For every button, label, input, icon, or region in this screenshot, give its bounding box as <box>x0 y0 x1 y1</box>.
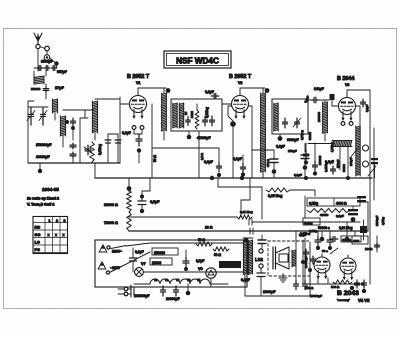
node dot <box>65 120 75 130</box>
capacitor 240pF <box>303 87 329 103</box>
label 0,5μF b <box>196 259 204 263</box>
labels right of dashed box <box>299 229 317 237</box>
resistor 50Ω a <box>196 238 212 246</box>
svg-text:0,01 Meg: 0,01 Meg <box>240 210 253 214</box>
svg-text:70000 Ω: 70000 Ω <box>104 221 118 225</box>
IF1 internal capacitor <box>184 112 190 126</box>
svg-text:30000: 30000 <box>191 110 194 118</box>
V3 cathode leads <box>341 106 360 126</box>
caps under detector <box>304 143 318 176</box>
mains triangle 220V <box>99 245 126 254</box>
svg-text:50 Ω: 50 Ω <box>214 253 221 257</box>
svg-text:V1: V1 <box>136 81 140 85</box>
svg-text:0,1μF: 0,1μF <box>204 160 213 164</box>
tube V1 <box>130 93 147 120</box>
node dot aerial <box>54 61 58 68</box>
PU terminal 1 <box>363 145 369 151</box>
svg-text:40000μF: 40000μF <box>36 155 50 159</box>
left section stub to bus <box>94 163 96 178</box>
capacitor to bus b <box>241 155 246 177</box>
resistor 50Ω b <box>213 247 229 257</box>
speaker terminal bottom <box>259 264 263 268</box>
svg-text:1,5Meg: 1,5Meg <box>330 142 334 152</box>
capacitor in tuning block <box>71 118 76 140</box>
svg-text:0,5 Ω: 0,5 Ω <box>200 152 204 160</box>
wire antenna to capacitor bank <box>37 49 39 64</box>
vertical drop a <box>241 178 250 217</box>
svg-text:2e serie op Kaart 2: 2e serie op Kaart 2 <box>27 197 59 201</box>
note line 2 <box>27 203 54 207</box>
label 100000μF <box>134 294 149 298</box>
svg-text:4,5Mg: 4,5Mg <box>381 217 385 225</box>
tube V5 <box>340 255 356 280</box>
capacitor 1000pF label <box>41 60 53 64</box>
IF2 bottom dot 6000pF <box>278 134 299 142</box>
bus junction dots <box>210 176 350 180</box>
svg-text:0,1μF: 0,1μF <box>135 250 144 254</box>
svg-text:0,1μF: 0,1μF <box>233 157 242 161</box>
tube label B2052T V2 <box>229 74 252 85</box>
label 0,1μF <box>122 131 131 135</box>
IF1 inner winding 2 <box>179 103 183 128</box>
capacitor to bus a <box>217 148 222 177</box>
electrolytic cap a <box>105 134 111 163</box>
svg-text:10000: 10000 <box>220 264 228 268</box>
pilot lamp V7 <box>135 262 146 276</box>
tube V4 <box>314 254 330 279</box>
box 0,2Meg <box>303 218 320 225</box>
svg-text:2: 2 <box>56 219 58 223</box>
wires around diode band <box>308 144 348 179</box>
aerial coil 100000 <box>31 71 46 91</box>
title box NSF WD4C <box>164 51 231 68</box>
IF1 secondary winding <box>173 103 177 128</box>
crossing ticks y231 <box>250 228 253 234</box>
svg-text:KG: KG <box>35 226 41 230</box>
wire V2 grid <box>222 103 232 105</box>
wire V1 top cap to IF1 <box>138 88 170 93</box>
capacitor stack a <box>70 143 76 163</box>
svg-text:800 Ω: 800 Ω <box>331 285 340 289</box>
wire top of varcaps <box>28 106 48 108</box>
labels left of detector <box>300 130 312 140</box>
svg-text:0,1μF: 0,1μF <box>299 233 307 237</box>
switch wiper circle <box>44 55 55 63</box>
svg-text:100Ω: 100Ω <box>365 247 373 251</box>
svg-text:150pF: 150pF <box>288 149 297 153</box>
svg-text:100000: 100000 <box>317 112 321 122</box>
PU terminal 2 <box>363 161 369 167</box>
tube label B2052T V1 <box>127 74 150 85</box>
cap right of V3 <box>361 99 370 112</box>
label 20000μF <box>166 297 180 301</box>
tube V2 <box>232 93 249 120</box>
psu caps <box>183 250 189 271</box>
capacitor trimmer <box>84 145 92 155</box>
svg-text:x: x <box>63 233 65 237</box>
wires output <box>303 231 364 284</box>
electrolytic cap b <box>115 134 121 163</box>
svg-text:V. Toon,B Golf 2: V. Toon,B Golf 2 <box>27 203 54 207</box>
heater dropper coil <box>134 279 228 284</box>
diode band winding <box>332 141 352 147</box>
black cap near right edge <box>357 196 366 202</box>
svg-text:V4: V4 <box>187 278 191 282</box>
black square capacitor <box>360 220 367 240</box>
capacitor 0,1μF mains <box>130 248 144 272</box>
hook to 0,5uF cap <box>142 178 150 191</box>
IF2 caps <box>283 118 302 128</box>
right edge black caps <box>371 158 378 178</box>
svg-text:1: 1 <box>49 219 51 223</box>
svg-text:250000pF: 250000pF <box>36 143 51 147</box>
svg-text:0,5μF: 0,5μF <box>196 259 204 263</box>
svg-text:40000: 40000 <box>320 213 329 217</box>
speaker right caps <box>294 232 308 290</box>
svg-text:B 2043: B 2043 <box>337 290 359 297</box>
variable capacitor C-tune1 <box>27 104 35 125</box>
resistor 200Ω <box>305 280 352 290</box>
capacitor bank (aerial series caps) <box>34 64 57 71</box>
oscillator padder coil <box>52 99 57 120</box>
rotated label 2200pF <box>375 215 385 226</box>
svg-text:0,1μF: 0,1μF <box>294 173 302 177</box>
svg-text:V7: V7 <box>141 262 146 266</box>
svg-text:V1: V1 <box>154 278 158 282</box>
svg-text:50000 a: 50000 a <box>318 226 330 230</box>
speaker terminal cap <box>258 235 266 248</box>
year note 1934-35 <box>42 187 59 192</box>
svg-text:240pF: 240pF <box>349 157 353 166</box>
svg-text:80000 Ω: 80000 Ω <box>104 203 118 207</box>
mains triangle 110V <box>98 262 120 274</box>
tuning coil L2 <box>60 116 65 147</box>
divider top dot <box>127 178 132 192</box>
label 0,1μF top <box>205 90 219 99</box>
svg-text:4000 Ω: 4000 Ω <box>336 202 347 206</box>
resistor 0,25Meg <box>266 188 315 198</box>
svg-text:50 Ω: 50 Ω <box>198 238 205 242</box>
output transformer windings <box>243 238 253 275</box>
rail y222 <box>249 219 360 225</box>
grid trimmer blob <box>330 94 339 106</box>
tube V3 <box>339 95 356 122</box>
svg-text:100000μF: 100000μF <box>134 294 149 298</box>
resistor 40000 zigzag <box>307 209 350 219</box>
svg-text:V2: V2 <box>238 81 242 85</box>
resistor box 150000 <box>152 248 178 255</box>
svg-text:x: x <box>55 233 57 237</box>
capacitor below V1 <box>136 134 142 163</box>
svg-text:V6: V6 <box>198 267 203 271</box>
left tuning block outline <box>28 97 120 163</box>
label 0,1Meg rotated <box>205 107 209 118</box>
svg-text:0,1Meg: 0,1Meg <box>98 144 102 155</box>
IF1 box <box>171 99 222 131</box>
IF2 box <box>272 99 308 134</box>
svg-text:2200pF: 2200pF <box>375 215 379 226</box>
label 0,1μF hook <box>276 145 285 149</box>
bottom feed wire <box>129 226 368 232</box>
resistor 0.1Meg vertical <box>90 142 102 162</box>
svg-text:0,1μF: 0,1μF <box>122 131 131 135</box>
resistor 0,01Meg <box>237 210 253 219</box>
transformer to rail wire <box>245 274 261 296</box>
svg-text:V3: V3 <box>345 83 349 87</box>
svg-text:240pF: 240pF <box>314 87 324 91</box>
IF1 right caps <box>203 116 215 126</box>
wire cap to tuning block <box>45 92 47 99</box>
svg-text:50000: 50000 <box>342 164 346 172</box>
svg-text:GG: GG <box>35 233 41 237</box>
wire lamp to transformer <box>143 243 243 272</box>
pickup arrow <box>368 166 376 176</box>
svg-text:30 a: 30 a <box>322 249 328 253</box>
resistor 80000Ω <box>104 190 131 212</box>
svg-text:NSF WD4C: NSF WD4C <box>176 57 219 66</box>
svg-text:B 2044: B 2044 <box>337 76 354 82</box>
svg-text:557pF: 557pF <box>57 70 67 74</box>
label 50000 <box>300 226 330 236</box>
svg-text:10000: 10000 <box>152 261 161 265</box>
detector coil 100000 <box>317 100 327 141</box>
divider tap wire <box>129 216 237 218</box>
svg-text:PG: PG <box>35 248 41 252</box>
right edge drop <box>375 236 380 252</box>
mains selector switch <box>111 243 151 272</box>
svg-text:3: 3 <box>64 219 66 223</box>
IF1 bottom dot 40000pF <box>187 131 211 140</box>
IF2 secondary winding <box>274 103 278 131</box>
svg-text:'accomp': 'accomp' <box>337 298 350 302</box>
svg-text:150000: 150000 <box>154 251 165 255</box>
label 0,1μF c <box>325 160 336 174</box>
antenna <box>34 33 42 44</box>
svg-text:V3: V3 <box>176 278 180 282</box>
svg-text:B 2052 T: B 2052 T <box>127 74 150 80</box>
tube label B2044 V3 <box>337 76 354 87</box>
svg-text:0,5Mg: 0,5Mg <box>309 202 318 206</box>
V2 side leads <box>228 106 252 178</box>
IF2 primary winding <box>261 88 270 178</box>
capacitor to bus d <box>288 144 309 179</box>
label 30a <box>322 248 338 254</box>
label B2043 <box>337 290 370 303</box>
svg-text:0,12 Meg: 0,12 Meg <box>339 226 353 230</box>
mains plug <box>118 285 134 297</box>
main chassis bus <box>95 177 372 179</box>
oscillator coil L3 <box>92 101 97 140</box>
capacitor 0,5μF divider <box>138 191 160 213</box>
heater caps <box>161 284 191 296</box>
svg-text:4000: 4000 <box>353 239 360 243</box>
svg-text:10000pF: 10000pF <box>310 294 322 298</box>
label 25000μF rotated <box>304 256 308 268</box>
capacitor 0,2μF <box>241 268 265 296</box>
speaker magnet <box>279 254 288 262</box>
label L32 <box>255 257 263 262</box>
wire V1 anode down <box>152 104 157 178</box>
speaker terminal top <box>259 249 263 253</box>
heater taps labels <box>154 278 201 282</box>
label 250000pF <box>36 143 51 147</box>
svg-text:V5: V5 <box>197 278 201 282</box>
resistor box 4000 right <box>341 236 361 242</box>
AVC bracket <box>218 178 262 187</box>
wire V3 top <box>347 90 370 95</box>
svg-text:50000: 50000 <box>308 132 312 140</box>
svg-text:150pF: 150pF <box>336 159 340 168</box>
svg-text:0,5Meg: 0,5Meg <box>300 130 304 140</box>
svg-text:20000μF: 20000μF <box>166 297 180 301</box>
svg-text:1000pF: 1000pF <box>41 60 53 64</box>
svg-text:V4 V5: V4 V5 <box>358 298 370 303</box>
label 40000μF <box>36 155 50 159</box>
svg-text:100000: 100000 <box>318 155 322 165</box>
IF1 primary winding <box>162 88 167 140</box>
IF1 internal resistor <box>191 104 199 129</box>
right vertical bus b <box>373 128 375 200</box>
resistor box 10000 <box>150 258 172 265</box>
svg-text:V2: V2 <box>165 278 169 282</box>
speaker winding <box>292 250 296 267</box>
svg-text:0,1μF: 0,1μF <box>336 214 344 218</box>
svg-text:220V~: 220V~ <box>112 250 122 254</box>
wire bus down right <box>367 202 369 231</box>
bottom bus of tuning block <box>28 162 120 164</box>
wire V2 top cap <box>240 88 269 93</box>
dark resistor box 150000 field <box>219 261 241 268</box>
tuning block inner wires <box>55 110 118 163</box>
capacitor 2000pF <box>263 290 276 294</box>
label 0,1μF b <box>233 157 242 161</box>
svg-text:B 2052 T: B 2052 T <box>229 74 252 80</box>
label 100 <box>365 247 373 251</box>
speaker dashed enclosure <box>268 241 310 276</box>
svg-text:50 Ω: 50 Ω <box>153 155 157 162</box>
svg-text:6000pF: 6000pF <box>287 138 299 142</box>
speaker cone <box>273 247 289 269</box>
svg-text:0,1μF: 0,1μF <box>325 160 334 164</box>
svg-text:0,1μF: 0,1μF <box>276 145 285 149</box>
svg-text:0,1μF: 0,1μF <box>205 90 214 94</box>
speaker bottom rail <box>261 276 310 296</box>
svg-text:20 Ω: 20 Ω <box>205 226 213 230</box>
svg-text:27pF: 27pF <box>55 86 65 90</box>
V1 cathode leads <box>132 126 144 137</box>
left column wires <box>301 240 316 284</box>
svg-text:100000: 100000 <box>31 87 41 91</box>
psu top right dot <box>244 238 249 243</box>
IF1 drop to bus <box>199 131 204 178</box>
rectifier V6 <box>198 267 216 287</box>
stub + junction dot below bus <box>38 163 42 173</box>
capacitor 27pF <box>43 86 64 92</box>
wire anode feed <box>152 147 219 149</box>
resistor 70000Ω <box>104 212 131 231</box>
svg-text:0,25 Meg: 0,25 Meg <box>268 194 282 198</box>
trimmer arrow <box>350 148 358 158</box>
power supply box outline <box>95 240 247 287</box>
svg-text:LG: LG <box>35 241 40 245</box>
coupling caps pair <box>315 231 333 250</box>
variable capacitor C-tune2 <box>39 108 47 128</box>
svg-text:1934-35: 1934-35 <box>42 187 59 192</box>
hatched box 4000 <box>352 236 368 244</box>
output stage top row dots <box>320 222 350 242</box>
waveband table <box>33 217 68 254</box>
note line 1 <box>27 197 59 201</box>
vertical drop b <box>261 187 263 219</box>
svg-text:7F: 7F <box>184 112 188 115</box>
black capacitor pair <box>348 209 358 222</box>
resistor box 0,5Meg / 4000 <box>307 198 360 206</box>
right vertical bus a <box>369 90 371 284</box>
label 10000pF <box>310 294 322 298</box>
capacitor to bus c <box>252 150 278 178</box>
svg-text:L32: L32 <box>255 257 263 262</box>
svg-text:0,5μF: 0,5μF <box>150 200 160 204</box>
svg-text:0,1μF: 0,1μF <box>365 104 369 112</box>
svg-text:x: x <box>48 233 50 237</box>
capacitor 557pF label <box>57 70 67 74</box>
wires right mid <box>305 196 368 218</box>
svg-text:0,1Meg: 0,1Meg <box>205 107 209 118</box>
label 0,1μF a <box>204 160 213 164</box>
svg-text:0,2Mg: 0,2Mg <box>304 221 313 225</box>
svg-text:200 Ω: 200 Ω <box>305 286 314 290</box>
speaker ground <box>279 274 287 282</box>
output bottom caps <box>350 280 367 293</box>
right column winding <box>356 126 360 176</box>
rotated value labels column <box>318 142 353 172</box>
svg-text:4,0Mg: 4,0Mg <box>309 229 317 233</box>
antenna coupling switch contacts <box>36 44 49 54</box>
svg-text:2000pF: 2000pF <box>263 290 276 294</box>
wire grid left <box>120 103 130 105</box>
